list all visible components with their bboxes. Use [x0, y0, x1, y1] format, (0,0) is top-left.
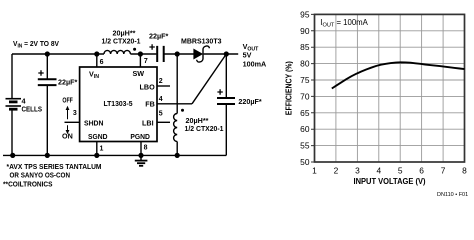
inductor L2 20uH 1/2 CTX20-1 secondary winding — [174, 114, 178, 142]
svg-text:1: 1 — [312, 165, 317, 175]
chart plot area border — [311, 14, 465, 162]
wire pin 6 stub — [96, 54, 98, 67]
capacitor C3 220uF plus sign — [217, 89, 222, 94]
chart y axis labels — [300, 9, 310, 167]
switch arrow up OFF — [67, 109, 69, 119]
svg-text:50: 50 — [300, 157, 310, 167]
wire diode cathode to VOUT — [204, 53, 239, 55]
svg-text:PGND: PGND — [130, 132, 150, 141]
wire ground bottom rail — [3, 154, 226, 156]
wire C2 to diode D1 anode — [164, 53, 194, 55]
wire pin 5 LBI stub — [157, 121, 170, 123]
wire pin 1 SGND stub — [96, 142, 98, 156]
phasing dot L1 — [133, 48, 136, 51]
svg-text:8: 8 — [462, 165, 467, 175]
svg-text:LBO: LBO — [140, 82, 156, 91]
svg-text:VIN = 2V TO 8V: VIN = 2V TO 8V — [13, 39, 59, 50]
svg-text:ON: ON — [62, 131, 73, 140]
capacitor C1 22uF plates — [38, 79, 57, 85]
chart efficiency curve — [332, 62, 465, 88]
wire left vertical battery top — [11, 54, 13, 99]
svg-text:80: 80 — [300, 59, 310, 69]
svg-text:7: 7 — [441, 165, 446, 175]
svg-text:SHDN: SHDN — [84, 119, 104, 128]
capacitor C1 22uF plus sign — [38, 70, 43, 75]
svg-text:4: 4 — [376, 165, 381, 175]
svg-text:OR SANYO OS-CON: OR SANYO OS-CON — [10, 171, 71, 180]
chart gridlines vertical — [336, 14, 443, 162]
svg-text:2: 2 — [334, 165, 339, 175]
svg-text:7: 7 — [144, 58, 148, 65]
node junction dot VOUT — [224, 51, 229, 56]
node junction dot diode anode / L2 top branch — [175, 51, 180, 56]
svg-text:*AVX TPS SERIES TANTALUM: *AVX TPS SERIES TANTALUM — [7, 162, 102, 171]
node junction dot battery bottom rail — [10, 153, 15, 158]
svg-text:1: 1 — [100, 145, 104, 152]
op IC U1 LT1303-5 body — [80, 67, 157, 142]
svg-text:22µF*: 22µF* — [58, 77, 78, 86]
svg-text:VIN: VIN — [89, 70, 99, 81]
node junction dot pin7 top rail — [138, 51, 143, 56]
node junction dot pin6 top rail — [94, 51, 99, 56]
label VOUT 5V 100mA — [243, 42, 267, 69]
node junction dot C1 bottom — [45, 153, 50, 158]
svg-text:FB: FB — [145, 100, 155, 109]
ground symbol — [135, 155, 148, 165]
chart border frame — [315, 14, 465, 162]
wire C3 bottom to ground rail — [225, 104, 227, 155]
svg-text:**COILTRONICS: **COILTRONICS — [3, 179, 53, 188]
svg-text:22µF*: 22µF* — [149, 32, 169, 41]
svg-text:5: 5 — [398, 165, 403, 175]
wire pin 8 PGND stub — [140, 142, 142, 156]
wire pin 4 FB stub to slant — [157, 103, 192, 105]
svg-text:LT1303-5: LT1303-5 — [104, 99, 133, 108]
svg-text:6: 6 — [419, 165, 424, 175]
svg-text:LBI: LBI — [142, 119, 154, 128]
svg-text:1/2 CTX20-1: 1/2 CTX20-1 — [102, 36, 141, 45]
svg-text:4: 4 — [159, 96, 163, 103]
capacitor C3 220uF plates — [217, 98, 235, 104]
svg-text:6: 6 — [100, 59, 104, 66]
switch arrow down ON — [67, 125, 69, 130]
svg-text:IOUT = 100mA: IOUT = 100mA — [320, 18, 368, 28]
svg-text:90: 90 — [300, 26, 310, 36]
svg-text:SW: SW — [133, 69, 145, 78]
svg-text:75: 75 — [300, 75, 310, 85]
svg-text:MBRS130T3: MBRS130T3 — [181, 36, 222, 45]
phasing dot L2 — [181, 109, 184, 112]
svg-text:SGND: SGND — [88, 132, 108, 141]
svg-text:55: 55 — [300, 141, 310, 151]
label 4 CELLS — [22, 96, 43, 113]
wire C1 branch top — [46, 54, 48, 79]
svg-text:85: 85 — [300, 42, 310, 52]
node junction dot pin8 ground rail — [138, 153, 143, 158]
svg-text:EFFICIENCY (%): EFFICIENCY (%) — [284, 61, 293, 115]
svg-text:3: 3 — [355, 165, 360, 175]
node junction dot C1 top — [45, 51, 50, 56]
svg-text:100mA: 100mA — [243, 59, 267, 68]
svg-text:INPUT VOLTAGE (V): INPUT VOLTAGE (V) — [354, 177, 426, 186]
chart x axis labels — [312, 165, 467, 175]
wire pin 3 SHDN stub — [65, 121, 80, 123]
wire L1 to capacitor C2 — [130, 53, 156, 55]
chart y axis ticks — [311, 14, 315, 162]
diode D1 MBRS130T3 schottky — [194, 46, 210, 62]
svg-text:8: 8 — [144, 145, 148, 152]
inductor L1 20uH 1/2 CTX20-1 primary winding — [104, 50, 130, 54]
svg-text:CELLS: CELLS — [22, 104, 43, 113]
wire battery bottom to ground rail — [11, 109, 13, 155]
wire L2 top branch from diode anode junction — [176, 54, 178, 114]
capacitor C2 22uF plus sign — [149, 44, 154, 49]
wire pin 7 stub — [139, 54, 141, 67]
wire L2 bottom to ground rail — [176, 142, 178, 156]
svg-text:65: 65 — [300, 108, 310, 118]
svg-text:5V: 5V — [243, 51, 252, 60]
wire feedback slant FB to VOUT — [192, 54, 226, 104]
wire C1 bottom to ground rail — [46, 85, 48, 155]
battery B1 4 CELLS — [6, 99, 22, 110]
wire pin 2 LBO stub — [157, 85, 170, 87]
svg-text:2: 2 — [159, 78, 163, 85]
svg-text:OFF: OFF — [62, 95, 73, 104]
svg-text:1/2 CTX20-1: 1/2 CTX20-1 — [185, 124, 224, 133]
wire VOUT junction down to C3 — [225, 54, 227, 98]
svg-text:220µF*: 220µF* — [238, 97, 262, 106]
svg-text:DN110 • F01: DN110 • F01 — [437, 192, 468, 198]
chart gridlines horizontal — [315, 31, 465, 146]
node junction dot L2 ground rail — [175, 153, 180, 158]
svg-text:95: 95 — [300, 9, 310, 19]
svg-text:5: 5 — [159, 110, 163, 117]
svg-text:3: 3 — [73, 110, 77, 117]
wire top rail from battery to inductor L1 — [12, 53, 104, 55]
svg-text:60: 60 — [300, 124, 310, 134]
node junction dot pin1 ground rail — [94, 153, 99, 158]
svg-text:70: 70 — [300, 91, 310, 101]
capacitor C2 22uF plates — [157, 46, 164, 62]
